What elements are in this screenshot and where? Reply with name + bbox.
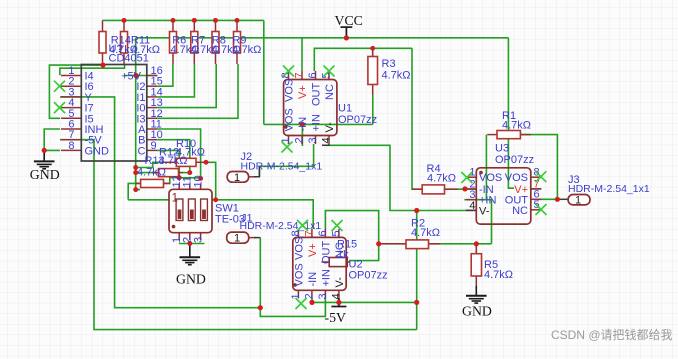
svg-text:V-: V-: [324, 122, 336, 133]
svg-text:4.7kΩ: 4.7kΩ: [427, 173, 456, 185]
CD4051 left pin stubs 1-8: [61, 75, 81, 77]
wire R11 bottom jog: [60, 64, 125, 76]
switch SW1 slot 1: [176, 199, 183, 221]
X U3 pin5: [536, 204, 547, 215]
wire R1 right to J3 node: [520, 135, 557, 200]
svg-text:8: 8: [68, 140, 74, 152]
wire VCC rail: [136, 37, 509, 39]
U1 top stubs: [288, 71, 290, 80]
wire J2 dark riser: [254, 167, 259, 177]
wire U1 pin6 riser and OUT rail: [314, 48, 412, 71]
CD4051 right pin stubs 16-9: [147, 75, 158, 77]
X U1 pin5: [324, 66, 335, 77]
svg-text:NC: NC: [512, 205, 528, 217]
svg-text:CSDN @请把钱都给我: CSDN @请把钱都给我: [551, 327, 673, 342]
wire U1 pin4 black jog: [322, 144, 329, 145]
node R9 top: [235, 18, 240, 23]
svg-text:9: 9: [151, 140, 157, 152]
svg-text:1: 1: [234, 172, 240, 184]
wire +5V pin16 horizontal: [125, 75, 158, 77]
switch SW1 pin1 dot: [172, 225, 176, 229]
node SW bottom GND: [187, 241, 192, 246]
node bodyA right: [204, 160, 209, 165]
wire R8 to pin13: [157, 64, 216, 108]
switch SW1 slot 3: [201, 199, 208, 221]
op-amp U1 internal labels (rotated): [284, 79, 337, 133]
connector J3 body: [568, 195, 590, 205]
resistor R8 body: [212, 32, 219, 54]
op-amp U3 body: [476, 168, 531, 224]
X U2 pin5: [332, 220, 343, 231]
X U1 pin1: [282, 142, 293, 153]
op-amp U3 internal labels: [479, 172, 528, 218]
node R3 top: [370, 46, 375, 51]
svg-text:3: 3: [307, 137, 319, 143]
wire R1 left riser: [485, 135, 487, 200]
top resistor leads: [102, 20, 104, 31]
svg-text:VOS: VOS: [293, 263, 305, 286]
node U2 pin2: [309, 300, 314, 305]
node GND left: [42, 148, 47, 153]
wire R2 right to R5/riser: [429, 243, 492, 245]
wire -5V riser x416: [416, 211, 418, 330]
svg-text:+IN: +IN: [311, 114, 323, 131]
node bodyA left: [133, 165, 138, 170]
svg-text:V-: V-: [479, 206, 490, 218]
R15 leads: [322, 261, 330, 263]
svg-text:OUT: OUT: [311, 83, 323, 107]
op-amp U1 pin numbers (rotated): [280, 72, 333, 143]
svg-text:4.7kΩ: 4.7kΩ: [131, 44, 160, 56]
X U3 pin8: [535, 171, 546, 182]
wire U2 feedback: pin6 up right down to R15: [325, 211, 378, 261]
svg-text:U3: U3: [495, 143, 509, 155]
svg-text:1: 1: [172, 191, 179, 205]
wire INH to GND: [44, 129, 60, 150]
CD4051 left pin names: [85, 71, 110, 158]
resistor R14 body: [99, 32, 106, 54]
wire U3 pin3 +IN row: [464, 200, 491, 244]
wire pin9 C to SW col: [157, 150, 179, 177]
wire bodyA right jog around SW: [206, 162, 216, 200]
svg-text:NC: NC: [334, 242, 346, 258]
wire U1 pin2 drop: [301, 124, 303, 146]
svg-text:+IN: +IN: [320, 269, 332, 286]
R1 leads: [487, 134, 497, 136]
svg-text:-IN: -IN: [307, 272, 319, 287]
wire R14 bottom to I5: [49, 65, 103, 118]
X U3 pin1: [461, 172, 472, 183]
svg-text:V-: V-: [334, 277, 346, 288]
wire R3 top tap: [372, 48, 374, 56]
wire U1 pin4 V- net: [325, 145, 465, 210]
no-connect X marks: [54, 66, 547, 310]
wire U1 pin3 to J2: [259, 144, 313, 177]
CD4051 right pin numbers: [151, 65, 163, 152]
svg-text:OUT: OUT: [320, 241, 332, 265]
U1 bottom stubs: [288, 136, 290, 145]
wire V+ row to U2 pin7: [128, 200, 313, 229]
X U2 pin1: [296, 298, 307, 309]
svg-text:4.7kΩ: 4.7kΩ: [411, 227, 440, 239]
wire U3 V+ riser: [508, 38, 514, 188]
wire J1 dark link: [254, 237, 260, 239]
svg-text:3: 3: [317, 293, 329, 299]
resistor R12 body (row B): [159, 169, 179, 177]
U2 top stubs: [297, 229, 299, 237]
node +5V pin16: [133, 73, 138, 78]
svg-text:4.7kΩ: 4.7kΩ: [137, 167, 166, 179]
svg-text:4.7kΩ: 4.7kΩ: [232, 44, 261, 56]
wire R7 to pin14: [157, 64, 194, 97]
svg-text:4.7kΩ: 4.7kΩ: [502, 120, 531, 132]
X chip pin4: [54, 102, 65, 113]
svg-text:6: 6: [307, 72, 319, 78]
J1 pin: [249, 237, 256, 239]
wire -5V net left: [60, 140, 417, 330]
wire row 177.8 short: [179, 177, 200, 179]
power -5V symbol: [331, 298, 346, 307]
svg-text:OP07zz: OP07zz: [349, 270, 388, 282]
op-amp U2 body: [293, 237, 346, 290]
node R8 top: [213, 18, 218, 23]
U3 right stubs: [531, 176, 542, 178]
svg-text:HDR-M-2.54_1x1: HDR-M-2.54_1x1: [240, 220, 322, 232]
op-amp U2 pin numbers (rotated): [290, 230, 343, 299]
svg-text:GND: GND: [462, 304, 492, 319]
svg-text:10: 10: [192, 175, 204, 187]
switch SW1 pin numbers (rotated): [171, 175, 204, 243]
svg-text:4.7kΩ: 4.7kΩ: [484, 269, 513, 281]
node out/J3: [555, 197, 560, 202]
svg-text:GND: GND: [30, 167, 60, 182]
wire U1 pin7 riser: [301, 38, 303, 71]
wire pin11 A to SW col: [157, 129, 200, 178]
svg-text:GND: GND: [85, 145, 110, 157]
svg-text:HDR-M-2.54_1x1: HDR-M-2.54_1x1: [568, 183, 650, 195]
node U3 pin2: [462, 186, 467, 191]
wire R6 to pin15: [157, 64, 173, 86]
wire U3 pin7 stub green: [531, 188, 542, 190]
svg-text:OP07zz: OP07zz: [495, 154, 534, 166]
node Y to J1 riser: [258, 305, 263, 310]
wire top rail drop to U1 -IN row: [263, 20, 265, 124]
wire -IN row horizontal to R3 riser: [264, 123, 373, 125]
svg-text:NC: NC: [324, 84, 336, 100]
wire R3 bottom riser: [372, 95, 374, 124]
dark connector/pin4 wires: [254, 144, 568, 238]
wire body C left drop to y200: [128, 183, 140, 199]
resistor R9 body: [234, 32, 241, 54]
chip CD4051 U? body: [81, 65, 147, 162]
node +5V drop end: [133, 187, 138, 192]
svg-text:VOS: VOS: [284, 79, 296, 102]
switch SW1 body: [169, 189, 212, 232]
op-amp U2 internal labels (rotated): [293, 237, 346, 288]
svg-text:V+: V+: [297, 85, 309, 99]
resistor R13 body (row C): [141, 179, 164, 187]
wire bodyC right jog: [164, 178, 180, 184]
svg-text:4: 4: [321, 137, 333, 143]
node U1 pin2: [300, 122, 305, 127]
resistor R15 body: [329, 258, 347, 267]
resistor R10 body (row A): [176, 158, 196, 166]
SW1 top stubs: [178, 184, 180, 190]
svg-text:4.7kΩ: 4.7kΩ: [159, 155, 188, 167]
ground left symbol: [34, 150, 55, 168]
svg-text:HDR-M-2.54_1x1: HDR-M-2.54_1x1: [241, 161, 323, 173]
power VCC symbol: [341, 27, 353, 37]
wire bodyA left jog: [136, 162, 164, 167]
wire pin10 B to SW col: [157, 140, 190, 173]
wire R4 feed riser: [412, 48, 422, 189]
op-amp U2 pin1 dot: [293, 283, 297, 287]
wire +5V inner drop to pullups: [136, 76, 140, 190]
resistor R6 body: [170, 32, 177, 54]
J2 pin: [249, 176, 256, 178]
resistor R4 body: [422, 185, 444, 194]
svg-text:1: 1: [575, 195, 581, 207]
wire Y net: [60, 97, 260, 308]
resistor R1 body: [497, 131, 520, 139]
wire R5 top: [475, 244, 477, 254]
op-amp U1 body: [284, 80, 337, 136]
node R2 left: [376, 241, 381, 246]
R4 leads: [412, 188, 422, 190]
wire U2 pin2 row: [312, 298, 417, 302]
op-amp U3 pin numbers: [469, 167, 539, 212]
wire U3 pin4 dark stub: [466, 209, 477, 211]
wire SW bottom tie: [179, 243, 205, 245]
ground right symbol (R5): [466, 286, 487, 303]
X U2 pin8: [297, 220, 308, 231]
svg-text:2: 2: [294, 137, 306, 143]
resistor R2 body: [406, 240, 429, 249]
svg-text:3: 3: [192, 237, 204, 243]
node R5 top: [474, 241, 479, 246]
wire U3 pin6 out: [538, 198, 558, 200]
R5 leads: [475, 244, 477, 254]
node R14 bottom: [100, 63, 105, 68]
resistor R7 body: [191, 32, 198, 54]
svg-text:VOS: VOS: [479, 172, 502, 184]
connector J2 body: [227, 172, 248, 183]
svg-text:1: 1: [234, 233, 240, 245]
node -5V stem cross: [336, 300, 341, 305]
svg-text:4: 4: [330, 293, 342, 299]
U3 left stubs: [466, 176, 477, 178]
ground SW1 symbol: [180, 244, 201, 265]
svg-text:U1: U1: [338, 103, 352, 115]
node bodyB left: [133, 170, 138, 175]
node SW col C top: [177, 175, 182, 180]
CD4051 right pin names: [121, 71, 146, 158]
wire VCC riser to +5V pin16: [135, 38, 137, 76]
pin stubs and leads (dark red): [61, 20, 541, 298]
svg-text:-5V: -5V: [325, 310, 346, 325]
svg-text:R3: R3: [382, 58, 396, 70]
wire J1 riser to U2 pin3: [260, 238, 325, 317]
wire bodyB left: [136, 172, 159, 174]
SW1 bottom stubs: [178, 233, 180, 240]
node R7 top: [192, 18, 197, 23]
node SW right jog: [213, 197, 218, 202]
U2 bottom stubs: [297, 290, 299, 298]
wire R2 left node: [380, 243, 406, 245]
node SW col B top: [187, 170, 192, 175]
wire top rail resistors: [103, 19, 264, 21]
R2 leads: [380, 243, 406, 245]
node R6 top: [171, 18, 176, 23]
node VCC tap: [344, 35, 349, 40]
wire R4 to U3 pin2: [445, 188, 477, 190]
svg-text:VCC: VCC: [335, 13, 363, 28]
svg-text:4: 4: [469, 200, 475, 212]
node V- cross: [414, 208, 419, 213]
svg-text:7: 7: [294, 72, 306, 78]
node -5V riser: [414, 300, 419, 305]
horizontal pullup resistor leads: [163, 161, 176, 163]
R3 leads: [372, 48, 374, 56]
wire J3 dark link: [557, 198, 568, 200]
svg-text:V+: V+: [307, 243, 319, 257]
connector J1 body: [227, 232, 249, 243]
node SW col A top: [198, 176, 203, 181]
op-amp U1 pin1 dot: [284, 125, 288, 129]
wire R9 to pin12: [157, 64, 238, 118]
svg-text:OP07zz: OP07zz: [338, 114, 377, 126]
switch SW1 slot 2: [188, 199, 195, 221]
wire bodyB right: [179, 172, 190, 174]
svg-text:-IN: -IN: [297, 117, 309, 132]
svg-text:VOS: VOS: [505, 172, 528, 184]
X U1 pin8: [283, 66, 294, 77]
svg-text:4.7kΩ: 4.7kΩ: [382, 70, 411, 82]
CD4051 left pin numbers: [68, 65, 74, 152]
op-amp U3 pin1 dot: [479, 171, 483, 175]
X chip pin2: [54, 81, 65, 92]
svg-text:GND: GND: [176, 272, 206, 287]
resistor R11 body: [121, 32, 128, 54]
svg-text:VOS: VOS: [284, 108, 296, 131]
resistor R5 body: [471, 254, 481, 276]
resistor R3 body: [368, 57, 378, 85]
svg-text:VOS: VOS: [293, 237, 305, 260]
node R11 top: [122, 18, 127, 23]
